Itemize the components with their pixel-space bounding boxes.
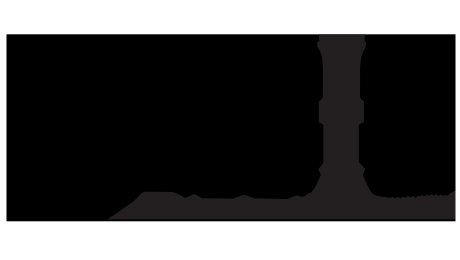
tower (standpipe) — [300, 34, 380, 197]
hills silhouette — [107, 187, 455, 219]
black panel — [7, 34, 456, 221]
